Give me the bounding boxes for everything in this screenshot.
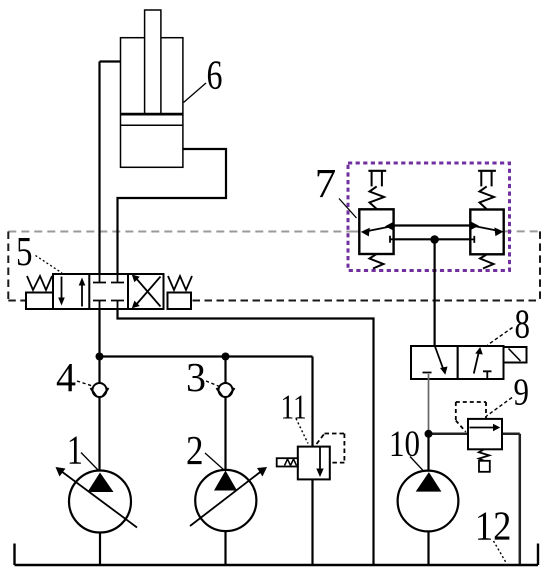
wire pump supply rail: [100, 355, 313, 357]
label 7: [315, 160, 357, 218]
wire valve8 drain (gray thin): [428, 374, 430, 434]
wire valve5 T port to tank: [118, 309, 374, 565]
right spring: [168, 276, 192, 290]
pump 1 (variable displacement): [56, 467, 138, 565]
junction pump2 rail: [222, 353, 230, 361]
wire cap-side port of cylinder to valve5 port B: [118, 149, 227, 274]
pilot box black dashed bottom-right: [193, 300, 541, 302]
svg-text:10: 10: [389, 424, 420, 465]
junction box7 output: [430, 235, 439, 244]
center position closed ports: [93, 274, 124, 283]
svg-text:2: 2: [186, 427, 204, 473]
relief valve 11: [277, 434, 345, 480]
gray pilot line top: [8, 230, 540, 232]
box 7 purple dashed frame: [348, 163, 510, 271]
wire pump10 rail to valve9 and tank: [429, 434, 520, 565]
svg-text:5: 5: [16, 228, 33, 274]
pilot box black dashed right edge: [539, 231, 541, 300]
left position arrows: [61, 277, 63, 300]
valve 9 (relief valve): [456, 402, 502, 472]
pilot box black dashed bottom-left: [8, 300, 26, 302]
logic valve 7 left unit: [359, 171, 393, 269]
right solenoid box: [168, 293, 192, 310]
svg-text:7: 7: [315, 160, 337, 206]
svg-text:1: 1: [67, 427, 83, 473]
cylinder 6: [121, 10, 183, 167]
label 12: [475, 503, 512, 563]
pump 2 (variable displacement): [190, 467, 267, 565]
wire rail down through relief valve 11 to tank: [311, 357, 313, 566]
check valve 3: [217, 357, 235, 472]
label 11: [281, 388, 308, 444]
wire box7 top connection: [394, 224, 471, 226]
label 1: [67, 427, 99, 473]
wire valve5 P port down to pump junction: [98, 309, 100, 357]
svg-text:3: 3: [186, 354, 206, 400]
label 8: [488, 301, 531, 347]
label 3: [186, 354, 220, 400]
label 5: [16, 228, 62, 274]
left solenoid box: [26, 293, 53, 310]
check valve 4: [91, 357, 109, 472]
wire box7 bottom connection: [394, 238, 471, 240]
label 10: [389, 424, 424, 471]
right position crossed arrows: [135, 277, 161, 307]
left spring: [27, 276, 52, 290]
svg-text:11: 11: [281, 388, 307, 427]
label 6: [184, 52, 223, 103]
valve 8 (3/2 directional valve): [411, 346, 527, 379]
label 2: [186, 427, 224, 473]
junction pump10: [425, 430, 433, 438]
wire box7 junction down to valve8: [434, 240, 436, 347]
pilot box black dashed left edge: [7, 232, 9, 301]
svg-text:9: 9: [514, 372, 530, 414]
label 9: [487, 372, 530, 417]
junction pump1 rail: [96, 353, 104, 361]
svg-text:4: 4: [56, 354, 76, 400]
svg-text:6: 6: [207, 52, 223, 98]
wire rod-side port of cylinder to valve5 port A: [100, 62, 121, 275]
logic valve 7 right unit: [470, 171, 503, 269]
tank 12: [15, 544, 539, 566]
valve 5 body (4/3 directional valve): [26, 274, 192, 309]
label 4: [56, 354, 94, 400]
pump 10 (fixed displacement): [398, 434, 459, 565]
svg-text:8: 8: [515, 301, 531, 347]
